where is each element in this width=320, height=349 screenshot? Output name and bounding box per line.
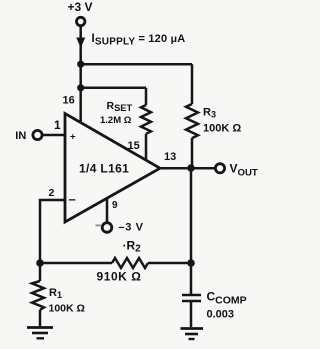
svg-text:1: 1 bbox=[54, 118, 61, 132]
svg-text:910K Ω: 910K Ω bbox=[97, 270, 142, 284]
svg-text:9: 9 bbox=[112, 200, 118, 211]
svg-text:2: 2 bbox=[49, 187, 55, 199]
svg-text:1/4 L161: 1/4 L161 bbox=[79, 162, 129, 176]
svg-text:–3 V: –3 V bbox=[119, 222, 144, 234]
svg-text:1.2M Ω: 1.2M Ω bbox=[100, 115, 132, 126]
svg-text:IN: IN bbox=[15, 130, 26, 142]
svg-text:16: 16 bbox=[63, 95, 75, 107]
svg-text:13: 13 bbox=[164, 151, 176, 163]
svg-text:100K Ω: 100K Ω bbox=[203, 123, 241, 135]
svg-text:+: + bbox=[70, 132, 76, 143]
svg-text:–: – bbox=[69, 192, 76, 207]
svg-text:0.003: 0.003 bbox=[207, 309, 235, 321]
svg-text:+3 V: +3 V bbox=[68, 0, 93, 14]
svg-text:100K Ω: 100K Ω bbox=[49, 303, 85, 315]
svg-text:15: 15 bbox=[128, 140, 140, 152]
